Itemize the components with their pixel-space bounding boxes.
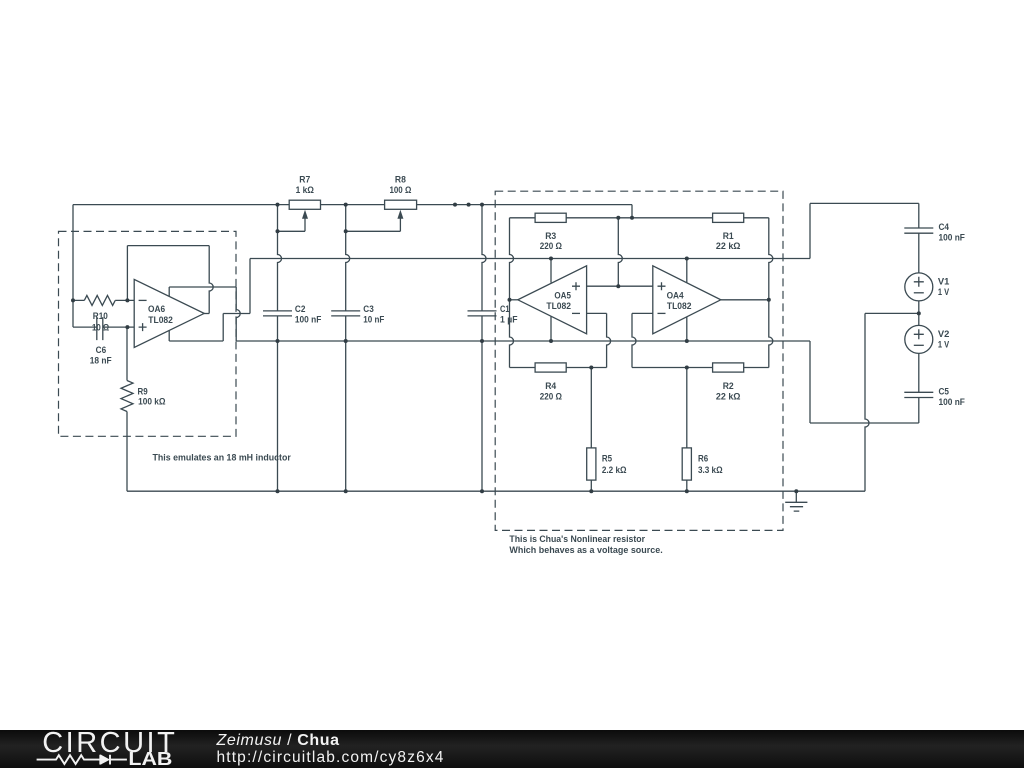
wire: top rail drop into Chua box <box>631 205 633 218</box>
annotation box: Chua nonlinear resistor (dashed) <box>495 191 783 530</box>
resistor R6 body <box>682 448 691 480</box>
svg-text:TL082: TL082 <box>546 301 571 312</box>
wire: OA6 V- pin stub <box>168 331 170 342</box>
svg-text:R4: R4 <box>545 381 557 392</box>
wire: OA5 output node vertical with hops over mid row and ground rail <box>510 218 514 368</box>
potentiometer R8 wiper arrow shaft <box>399 218 401 231</box>
footer title: Zeimusu / Chua <box>217 732 340 750</box>
svg-text:TL082: TL082 <box>667 301 692 312</box>
capacitor C3 plates <box>331 311 360 316</box>
wire: junction node to V2 <box>918 313 920 325</box>
svg-text:This emulates an 18 mH inducto: This emulates an 18 mH inductor <box>153 452 292 462</box>
ground symbol <box>785 491 807 511</box>
wire: R2 row <box>632 367 769 369</box>
footer bar <box>0 730 1024 768</box>
wire: OA5 minus input to R4 riser <box>587 312 607 314</box>
voltage source V1 circle <box>905 273 933 301</box>
svg-text:3.3 kΩ: 3.3 kΩ <box>698 465 723 476</box>
wire: R4 row <box>510 367 607 369</box>
svg-text:22 kΩ: 22 kΩ <box>716 241 741 252</box>
wire: C3 column upper with hop over mid row <box>346 205 350 311</box>
wire: OA4 V+ pin stub <box>686 259 688 283</box>
wire: OA5 output stub to node <box>510 299 518 301</box>
svg-text:V2: V2 <box>938 329 950 340</box>
wire: R7 wiper link to C2 column <box>278 230 306 232</box>
svg-text:1 V: 1 V <box>938 340 950 351</box>
voltage source V2 minus symbol <box>914 344 924 346</box>
wire: R5 bottom lead <box>590 480 592 491</box>
wire: left column vertical <box>72 205 74 328</box>
op-amp OA5 triangle (left-pointing) <box>518 266 587 334</box>
wire: OA6 output stub <box>204 313 209 315</box>
svg-text:V1: V1 <box>938 277 950 288</box>
resistor R9 zigzag <box>121 381 133 412</box>
wire: box edge vertical down to ground rail with hop <box>236 287 240 341</box>
wire: plus-input row between OA5 and OA4 <box>587 285 653 287</box>
wire: C1 column upper with hop over mid row <box>482 205 486 311</box>
wire: R6 top lead <box>686 368 688 448</box>
svg-text:R2: R2 <box>723 381 734 392</box>
capacitor C6 plates <box>97 317 103 340</box>
wire: OA6 V- jog vertical <box>222 314 224 342</box>
annotation box: 18mH inductor emulator (dashed) <box>59 231 237 436</box>
voltage source V2 circle <box>905 325 933 353</box>
resistor R1 body <box>713 213 744 222</box>
svg-text:OA5: OA5 <box>554 290 571 301</box>
wire: OA4 V- pin stub <box>686 317 688 341</box>
resistor R10 zigzag <box>84 295 115 305</box>
wire: riser from V- row to mid row <box>249 259 251 314</box>
svg-text:C4: C4 <box>939 222 950 233</box>
svg-text:100 nF: 100 nF <box>295 314 322 325</box>
svg-text:10 Ω: 10 Ω <box>92 323 110 334</box>
voltage source V1 plus symbol <box>914 277 924 287</box>
wire: C4 feed top horizontal <box>810 202 919 204</box>
svg-text:10 nF: 10 nF <box>363 314 384 325</box>
op-amp OA6 minus symbol <box>139 299 147 301</box>
op-amp OA5 minus symbol <box>572 312 580 314</box>
potentiometer R7 body <box>289 200 320 209</box>
wire: OA4 minus riser down to R2 row with hop over ground rail <box>632 313 636 367</box>
svg-text:OA6: OA6 <box>148 304 165 315</box>
svg-text:This is Chua's Nonlinear resis: This is Chua's Nonlinear resistor <box>509 534 645 544</box>
svg-text:C1: C1 <box>500 304 510 315</box>
svg-text:100 nF: 100 nF <box>939 397 966 408</box>
wire: C4 to V1 <box>918 233 920 273</box>
svg-text:2.2 kΩ: 2.2 kΩ <box>602 465 627 476</box>
op-amp OA4 plus symbol <box>658 282 666 290</box>
potentiometer R8 wiper arrowhead <box>397 210 403 219</box>
svg-text:1 kΩ: 1 kΩ <box>296 185 315 196</box>
wire: OA6 V- bottom jog horizontal <box>169 340 223 342</box>
CircuitLab logo wordmark <box>42 727 177 760</box>
wire: top rail from left column to Chua box entry <box>73 204 632 206</box>
wire: R1-R2 right vertical with hops over mid row and ground rail <box>769 218 773 368</box>
wire: OA6 feedback right vertical with hop over V+ wire <box>209 246 213 314</box>
wire: V2 to C5 <box>918 353 920 392</box>
op-amp OA6 triangle <box>134 279 204 347</box>
wire: OA4 output to feedback node <box>721 299 769 301</box>
potentiometer R7 wiper arrowhead <box>302 210 308 219</box>
wire: R9 top lead <box>126 327 128 380</box>
svg-text:220 Ω: 220 Ω <box>540 392 563 403</box>
svg-text:R1: R1 <box>723 231 735 242</box>
svg-text:100 kΩ: 100 kΩ <box>138 396 166 407</box>
wire: V1-V2 midpoint tap horizontal <box>865 312 919 314</box>
svg-text:TL082: TL082 <box>148 315 173 326</box>
svg-text:Which behaves as a voltage sou: Which behaves as a voltage source. <box>509 545 662 555</box>
wire: vertical from R3-R1 row to plus-input row with hop over mid row <box>618 218 622 286</box>
svg-text:R6: R6 <box>698 454 708 465</box>
wire: C2 column upper with hop over mid row <box>278 205 282 311</box>
capacitor C4 plates <box>904 228 933 233</box>
wire: R5 top lead <box>590 368 592 448</box>
wire: C5 bottom lead <box>918 398 920 424</box>
wire: midpoint tap vertical down to ground with hop over C5 return <box>865 313 869 491</box>
wire: OA6 V+ rail to box edge <box>169 286 236 288</box>
wire: C3 column lower <box>345 316 347 491</box>
wire: right riser from mid row up to C4 feed <box>809 203 811 258</box>
potentiometer R8 body <box>385 200 417 209</box>
capacitor C2 plates <box>263 311 292 316</box>
wire: ground rail riser down at right <box>809 341 811 423</box>
voltage source V2 plus symbol <box>914 329 924 339</box>
wire: ground rail bottom right horizontal to C5 <box>810 422 919 424</box>
svg-text:22 kΩ: 22 kΩ <box>716 392 741 403</box>
resistor R3 body <box>535 213 566 222</box>
svg-text:OA4: OA4 <box>667 290 685 301</box>
wire: OA6 V+ pin stub <box>168 287 170 296</box>
wire: OA6 non-inverting input row (left part, to C6) <box>73 326 97 328</box>
wire: mid distribution row across schematic <box>250 258 810 260</box>
wire: R6 bottom lead <box>686 480 688 491</box>
wire: OA6 non-inverting input row (C6 to op-amp) <box>103 326 134 328</box>
wire: R3-R1 row <box>510 217 769 219</box>
wire: OA6 inverting input row <box>73 299 134 301</box>
wire: V1 to junction node <box>918 301 920 314</box>
wire: R4 right riser with hop over ground rail <box>607 313 611 367</box>
wire: C1 column lower <box>481 316 483 491</box>
capacitor C1 plates <box>468 311 497 316</box>
svg-text:100 Ω: 100 Ω <box>389 185 411 196</box>
op-amp OA5 plus symbol <box>572 282 580 290</box>
wire: OA6 feedback top horizontal <box>127 245 209 247</box>
svg-text:R10: R10 <box>93 311 108 322</box>
svg-text:R5: R5 <box>602 454 613 465</box>
svg-text:C5: C5 <box>939 387 950 398</box>
svg-text:220 Ω: 220 Ω <box>540 241 563 252</box>
wire: bottom ground rail <box>127 490 865 492</box>
wire: OA5 V+ pin stub <box>550 259 552 283</box>
resistor R5 body <box>587 448 596 480</box>
svg-text:1 V: 1 V <box>938 287 950 298</box>
wire: OA6 feedback left vertical <box>126 246 128 301</box>
wire: V- row out of OA6 box <box>223 313 250 315</box>
footer url <box>217 749 445 767</box>
capacitor C5 plates <box>904 392 933 397</box>
resistor R4 body <box>535 363 566 372</box>
resistor R2 body <box>713 363 744 372</box>
svg-text:1 µF: 1 µF <box>500 315 518 326</box>
svg-text:18 nF: 18 nF <box>90 355 112 366</box>
op-amp OA6 plus symbol <box>139 323 147 331</box>
op-amp OA4 triangle <box>653 266 721 334</box>
op-amp OA4 minus symbol <box>658 312 666 314</box>
svg-text:C6: C6 <box>96 345 107 356</box>
svg-text:100 nF: 100 nF <box>939 232 966 243</box>
wire: R9 bottom lead to ground rail <box>126 412 128 492</box>
wire: ground rail main (right section) <box>236 340 810 342</box>
wire: OA5 V- pin stub <box>550 316 552 341</box>
wire: R8 wiper link to C3 column <box>346 230 401 232</box>
wire: C4 top lead <box>918 203 920 228</box>
potentiometer R7 wiper arrow shaft <box>304 218 306 231</box>
wire: C2 column lower <box>277 316 279 491</box>
wire: OA4 minus input jog <box>632 312 653 314</box>
voltage source V1 minus symbol <box>914 292 924 294</box>
svg-text:R3: R3 <box>545 231 556 242</box>
